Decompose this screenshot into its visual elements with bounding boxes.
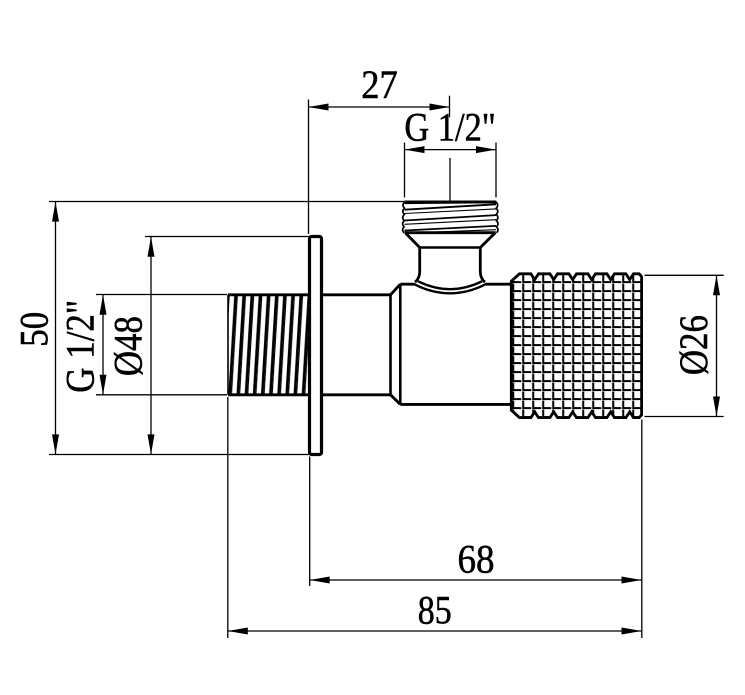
svg-text:68: 68 [458,537,495,582]
dim O26 extensions [645,275,724,416]
svg-text:Ø26: Ø26 [671,315,716,375]
dim G1/2 left extensions [96,295,227,395]
arrow 50 bottom [52,434,59,454]
arrow O26 bottom [713,397,720,417]
svg-text:Ø48: Ø48 [106,316,151,376]
arrow 27 right [430,104,450,111]
arrow 27 left [309,104,329,111]
thread helix lines [405,202,497,205]
arrow G1/2 top left [405,146,425,153]
centerline of top port [449,158,451,201]
dim 68 extensions [310,420,642,639]
dim O48 top extension [145,236,309,238]
svg-text:G 1/2": G 1/2" [57,300,102,393]
arrowheads [52,104,720,635]
dim G1/2 top extensions [405,143,497,198]
arrow G1/2 top right [476,146,496,153]
dim G1/2 left line [102,295,104,395]
dim 27 line [309,106,450,108]
dim O48 line [150,237,152,455]
tube between flange and body [322,295,391,395]
top port chamfer trapezoid [406,233,496,248]
dim 27 extension left [308,100,310,235]
dim 85 left extension [227,397,229,638]
svg-text:50: 50 [12,312,57,347]
arrow 68 left [310,577,330,584]
svg-text:85: 85 [418,588,452,633]
arrow G1/2 left top [100,295,107,315]
svg-text:27: 27 [361,62,398,107]
wavy right edge [496,202,498,233]
dim O26 line [716,275,718,416]
arrow G1/2 left bottom [100,375,107,395]
arrow 68 right [622,577,642,584]
arrow O48 top [148,237,155,257]
top port thread block [403,202,498,233]
dim 50 line [55,202,57,455]
wavy left edge [403,202,405,233]
dim 85 line [228,630,642,632]
arrow O48 bottom [148,434,155,454]
dim G1/2 top line [405,149,497,151]
arrow O26 top [713,275,720,295]
neck intersection arcs [414,281,487,293]
dim 68 line [310,579,642,581]
dim 50 extensions [49,202,404,455]
wide valve body [400,284,511,404]
left threaded pipe G1/2 body [228,295,310,395]
dim 27 right tick / centerline top [449,96,451,118]
svg-text:G 1/2": G 1/2" [404,105,496,150]
chamfer step to wide body [391,284,401,404]
arrow 50 top [52,202,59,222]
knurled handle [511,274,641,418]
arrow 85 right [622,628,642,635]
wall flange [310,237,322,455]
arrow 85 left [228,628,248,635]
top port neck [415,248,485,283]
